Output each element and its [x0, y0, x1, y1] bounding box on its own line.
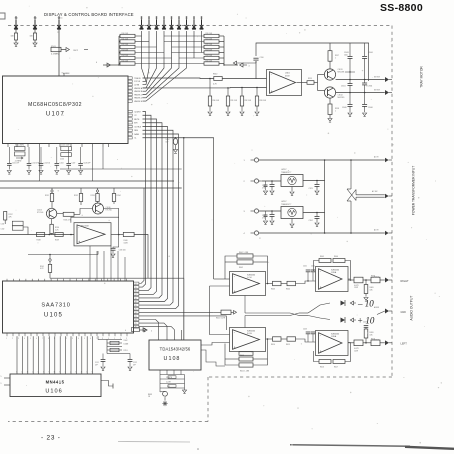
svg-text:L-CH: L-CH — [247, 277, 252, 279]
svg-text:CUTR-B: CUTR-B — [134, 126, 142, 128]
svg-text:R315: R315 — [308, 78, 312, 80]
svg-text:TRANSIST T: TRANSIST T — [281, 203, 292, 206]
wire pair to AC arrow — [356, 194, 385, 196]
wire CN1 pin 7 to U107 — [143, 31, 187, 101]
wire bus line 11 — [70, 336, 72, 374]
scan artifact faint line — [118, 441, 190, 444]
resistor R139 series — [55, 233, 63, 237]
svg-text:R151: R151 — [124, 350, 128, 352]
capacitor C310 — [253, 57, 258, 59]
U107 bottom pin 3 stub — [27, 144, 29, 148]
open arrow node DATA below U105 — [139, 329, 143, 331]
capacitor C404 — [312, 334, 314, 342]
capacitor C110 electrolytic to ground — [175, 137, 177, 140]
svg-text:HNDSK A: HNDSK A — [134, 87, 143, 90]
wire CN1 pin 1 to U107 — [142, 31, 147, 81]
resistor R407 0.47R — [354, 277, 363, 283]
resistor RA1-3 — [120, 45, 135, 48]
wire Q101 emitter down through R136 — [51, 219, 53, 225]
svg-text:U106: U106 — [45, 389, 62, 395]
wire bus line 15 — [92, 336, 94, 374]
svg-text:C310: C310 — [260, 57, 264, 59]
capacitor C311 between rails — [349, 80, 351, 84]
svg-text:1/2EA: 1/2EA — [331, 335, 337, 338]
crystal X101 network boxes — [15, 147, 26, 151]
wire input line with series resistors — [0, 234, 74, 236]
resistor RA1-4 — [120, 51, 135, 54]
connector arrow RIGHT — [380, 279, 385, 281]
svg-text:U105: U105 — [44, 313, 63, 319]
wire bus line 13 — [81, 336, 83, 374]
resistor RA1-6 — [120, 62, 135, 65]
svg-text:HNDSK E: HNDSK E — [134, 101, 143, 103]
svg-text:NEC2SD: NEC2SD — [338, 97, 346, 99]
U107 bottom pin 7 stub — [70, 144, 72, 148]
svg-text:R10 10K: R10 10K — [122, 33, 129, 35]
svg-text:2: 2 — [151, 331, 152, 333]
capacitor C401 — [307, 272, 309, 281]
capacitor C312 electrolytic — [364, 80, 366, 84]
capacitor C131 boxes left — [12, 221, 23, 225]
wire REG2 output — [303, 212, 325, 214]
svg-text:R415: R415 — [286, 344, 290, 346]
svg-text:R-CH: R-CH — [247, 333, 252, 335]
op-amp U401B left lower — [230, 328, 266, 352]
transistor Q102 — [93, 203, 104, 214]
resistor R412 second feedback below — [239, 357, 253, 361]
resistor RP1 pull-down with ground — [209, 79, 211, 97]
svg-text:HNDSK B: HNDSK B — [134, 91, 143, 93]
svg-text:DTCLK: DTCLK — [134, 81, 141, 83]
svg-text:C401: C401 — [303, 266, 307, 268]
resistor R135 between transistors — [57, 213, 63, 215]
capacitor C152 with ground — [129, 354, 131, 360]
output chain LEFT channel — [348, 342, 354, 344]
junction dots tray outputs — [349, 79, 351, 81]
wire U107 C2 to center bus down to U105 pin 3 — [139, 115, 151, 290]
wire U105 pin 13 to U108 pin c — [139, 327, 175, 340]
connector P303 power input — [254, 209, 258, 213]
svg-text:R411 1.13M: R411 1.13M — [240, 371, 250, 373]
wire U107 C7 down to U105 pin 8 — [139, 134, 179, 309]
svg-text:R12 10K: R12 10K — [122, 44, 129, 46]
resistor RP3 pull-down with ground — [241, 88, 243, 97]
wire bus line 3 — [27, 336, 29, 374]
connector arrow LEFT — [380, 342, 385, 344]
connector CN1 pin 5 — [171, 20, 173, 26]
resistor RA2-1 — [204, 34, 219, 37]
svg-text:C108 47P: C108 47P — [83, 163, 90, 165]
svg-text:AUDIO OUTPUT: AUDIO OUTPUT — [410, 296, 414, 321]
wire bus C — [0, 187, 182, 189]
feedback loop U401A with resistors — [253, 256, 268, 284]
resistor R138 series — [36, 233, 44, 237]
resistor RA2-4 — [204, 51, 219, 54]
capacitor C101 with ground — [8, 147, 10, 163]
wire bus B — [0, 180, 174, 182]
resistor RA2-6 — [204, 62, 219, 65]
svg-text:+: + — [78, 240, 80, 244]
wire audio input lower B steps — [201, 343, 230, 346]
resistor R102 with ground — [34, 30, 36, 34]
resistor network XT102 rows — [106, 340, 108, 354]
svg-text:OSC1: OSC1 — [58, 18, 63, 20]
svg-text:15: 15 — [135, 287, 137, 289]
wire U107 C6 to center bus down to U105 pin 7 — [139, 130, 173, 305]
wire R141 to horizontal rail — [49, 272, 51, 278]
dashed interface border bottom — [8, 421, 208, 423]
svg-text:+ 10: + 10 — [357, 316, 375, 326]
wire U107 C8 long to audio — [143, 138, 214, 279]
svg-text:-: - — [271, 72, 272, 76]
svg-text:R402: R402 — [239, 267, 243, 269]
capacitor C107 with ground — [68, 147, 70, 163]
scan artifact dark edge — [405, 447, 454, 449]
connector CN1 pin 1 — [141, 20, 143, 26]
resistor R141 vertical RES line — [49, 255, 51, 259]
wire Q102 collector right — [104, 209, 119, 218]
svg-text:+: + — [234, 346, 236, 350]
U108 left arrow node — [132, 328, 140, 332]
wire CN1 pin 4 to U107 — [143, 31, 165, 91]
U107 bottom pin 5 stub — [48, 144, 50, 148]
output resistor R415 — [281, 338, 287, 340]
wire bus line 4 — [32, 336, 34, 374]
svg-text:23: 23 — [135, 316, 137, 318]
resistor R310 strobe — [214, 77, 222, 81]
svg-text:POWER TRANSFORMER INPUT: POWER TRANSFORMER INPUT — [412, 166, 416, 216]
wire U105 pin 9 to CUTR — [139, 311, 214, 313]
resistor network boxes R121 — [61, 147, 72, 151]
open arrow node OSC2 — [66, 47, 69, 51]
wire bus line 10 — [65, 336, 67, 374]
svg-text:R131: R131 — [45, 195, 49, 197]
svg-text:C3011: C3011 — [341, 86, 346, 88]
svg-text:R134: R134 — [117, 195, 121, 197]
svg-text:1: 1 — [335, 110, 336, 112]
svg-text:4: 4 — [96, 62, 97, 64]
voltage regulator REG1 — [281, 175, 303, 187]
svg-text:MN4415: MN4415 — [46, 380, 65, 385]
wire CN1 pin 5 to U107 — [143, 31, 172, 95]
svg-text:R403: R403 — [271, 289, 275, 291]
svg-text:1: 1 — [335, 57, 336, 59]
output resistor R414 — [268, 338, 273, 340]
connector J3 OSC1 — [58, 20, 60, 26]
connector node 27 — [163, 391, 168, 396]
junction dots input line — [49, 234, 51, 236]
op-amp U301 tray driver — [267, 70, 302, 96]
wire crossover X — [350, 160, 352, 189]
svg-text:TDMOD: TDMOD — [134, 78, 141, 80]
capacitor C322 with ground — [271, 211, 273, 214]
voltage regulator REG2 — [281, 207, 303, 219]
svg-text:1/2EA: 1/2EA — [331, 271, 337, 274]
svg-text:R25 10K: R25 10K — [206, 60, 213, 62]
wire strobe to op-amp — [222, 78, 266, 80]
svg-text:LEFT: LEFT — [401, 342, 408, 346]
svg-text:R13 10K: R13 10K — [122, 49, 129, 51]
resistor R134 hanging — [113, 188, 115, 194]
svg-text:C402: C402 — [311, 266, 315, 268]
wire to regulator REG1 — [259, 180, 281, 182]
svg-text:+: + — [320, 350, 322, 354]
wire U105 bottom pin to U108 pin d — [130, 336, 182, 341]
svg-text:MC68HC05C8/P302: MC68HC05C8/P302 — [28, 102, 82, 108]
capacitor C132 boxes left — [12, 226, 23, 230]
wire CN1 pin 6 to U107 — [143, 31, 180, 98]
dashed interface border right — [391, 26, 393, 378]
resistor R413 third feedback below — [239, 352, 253, 356]
resistor R317 collector top — [329, 43, 331, 51]
U107 bottom pin 10 stub — [102, 144, 104, 148]
wire CN1 pin 9 stub — [201, 31, 203, 53]
wire AC rail top — [259, 159, 385, 161]
capacitor C313 top with label — [349, 43, 351, 56]
svg-text:C7034: C7034 — [368, 86, 373, 88]
svg-text:U108: U108 — [164, 356, 181, 362]
wire bus line 8 — [54, 336, 56, 374]
wire U108 ground leg — [164, 390, 166, 393]
svg-text:18: 18 — [135, 298, 137, 300]
op-amp U105 box (SAA7310 decoder) — [3, 281, 134, 333]
wire bus line 9 — [59, 336, 61, 374]
capacitor C103 with ground — [40, 147, 42, 163]
resistor R409 to ground — [365, 280, 367, 285]
transistor Q301 — [324, 69, 335, 80]
capacitor C314 top right — [364, 43, 366, 56]
U107 right pin name boxes group2 — [128, 110, 132, 112]
resistor RA1-2 — [120, 40, 135, 43]
svg-text:-: - — [320, 333, 321, 337]
wire bus line 6 — [43, 336, 45, 374]
resistor R131 hanging — [51, 188, 53, 190]
wire CN1 pin 3 to U107 — [143, 31, 157, 88]
svg-text:MUTE: MUTE — [134, 119, 140, 121]
wire bus line 7 — [48, 336, 50, 374]
connector CN1 pin 3 — [156, 20, 158, 26]
svg-text:-: - — [320, 269, 321, 273]
connector CN1 pin 9 — [201, 20, 203, 26]
ground REG2 — [291, 219, 293, 224]
resistor R103 4MHZ — [51, 47, 61, 51]
svg-text:4.19MHZ: 4.19MHZ — [51, 54, 60, 56]
open arrow mute lower — [350, 318, 353, 322]
wire to right opamp stage — [296, 281, 316, 284]
wire output to bus — [134, 235, 148, 279]
resistor R402 second feedback — [237, 260, 253, 264]
resistor RA2-5 — [204, 56, 219, 59]
svg-text:8.46M: 8.46M — [124, 344, 129, 346]
junction and resistor R408 — [363, 279, 371, 281]
resistor R132 hanging — [80, 188, 82, 194]
wire U105 pin 12 to U108 pin b — [139, 323, 167, 340]
wire tray feedback loop top — [255, 61, 257, 79]
wire op-amp output to base resistor — [297, 82, 308, 84]
wire lower diagonal steps — [201, 350, 225, 366]
svg-text:C3043: C3043 — [344, 52, 349, 54]
op-amp U402B right lower — [316, 331, 349, 356]
svg-text:47P: 47P — [133, 364, 136, 366]
mute transistor marks upper — [308, 303, 330, 313]
wire U107 C5 to center bus down to U105 pin 6 — [139, 127, 168, 302]
svg-text:C105 100P: C105 100P — [61, 145, 70, 147]
svg-text:21: 21 — [135, 309, 137, 311]
wire AC rail bottom — [259, 232, 385, 234]
capacitor C315 bottom with ground — [349, 93, 351, 105]
resistor R133 hanging — [97, 188, 99, 190]
svg-text:LDTM: LDTM — [134, 85, 139, 87]
svg-text:R133: R133 — [91, 195, 95, 197]
svg-text:U107: U107 — [46, 112, 65, 118]
svg-text:RIGHT: RIGHT — [401, 279, 409, 283]
wire left boxes to input line — [23, 227, 28, 235]
resistor R418 0.47R — [354, 340, 363, 346]
op-amp U107 box (MCU MC68HC05C8/P302) — [3, 76, 129, 144]
svg-text:1/2W: 1/2W — [354, 350, 358, 352]
connector J2 P32 — [34, 20, 36, 26]
svg-text:TRAY MOTOR: TRAY MOTOR — [420, 66, 424, 88]
resistor RA1-1 — [120, 34, 135, 37]
svg-text:OSC2: OSC2 — [73, 50, 78, 52]
svg-text:14: 14 — [135, 284, 137, 286]
svg-text:25: 25 — [135, 323, 137, 325]
svg-text:HNDSK C: HNDSK C — [134, 94, 143, 96]
U107 bottom pin 6 stub — [59, 144, 61, 148]
wire tray motor output A — [336, 79, 385, 81]
wire feedback loop U102 — [71, 217, 119, 234]
wire bus line 1 — [16, 336, 18, 374]
U107 bottom pin 4 stub — [39, 144, 41, 148]
resistor R315 base — [307, 81, 314, 85]
capacitor C102 with ground — [28, 147, 30, 163]
svg-text:-: - — [234, 330, 235, 334]
scan artifact dot — [197, 448, 199, 450]
U108 bottom pin stubs — [159, 370, 161, 375]
svg-text:R23 10K: R23 10K — [206, 49, 213, 51]
connector CN1 pin 6 — [178, 20, 180, 26]
svg-text:GND: GND — [401, 311, 407, 314]
svg-text:C3045: C3045 — [342, 107, 347, 109]
svg-text:19: 19 — [135, 302, 137, 304]
capacitor C324 with ground — [316, 213, 318, 217]
open arrow node KEY2 — [240, 63, 243, 67]
ground REG1 — [291, 187, 293, 192]
svg-text:4.19MHZ: 4.19MHZ — [15, 161, 22, 163]
svg-text:R21 10K: R21 10K — [206, 38, 213, 40]
U107 bottom pin 11 stub — [107, 144, 109, 148]
U107 pin 39 tick — [63, 73, 65, 76]
resistor R420 up with cap — [365, 338, 367, 343]
op-amp U108 box (TDA1543 DAC) — [149, 340, 201, 370]
capacitor C104 with ground — [56, 147, 58, 163]
svg-text:R15 10K: R15 10K — [122, 60, 129, 62]
U105 top long stubs to servo section — [89, 246, 91, 281]
svg-text:MOTOR: MOTOR — [374, 77, 381, 79]
wire U105 pin 11 to U108 pin a — [139, 320, 159, 341]
open arrow CUTR — [231, 311, 234, 313]
resistor R136 — [50, 224, 53, 233]
dashed interface border step vertical — [207, 377, 209, 422]
op-amp U106 box (MN4415 RAM) — [10, 374, 101, 397]
resistor R137 left edge — [4, 212, 7, 221]
resistor RA2-2 — [204, 40, 219, 43]
svg-text:TDA1543/42/56: TDA1543/42/56 — [160, 347, 191, 352]
resistor RA1-5 — [120, 56, 135, 59]
U105 top pin stubs — [6, 279, 8, 281]
svg-text:- 23 -: - 23 - — [41, 435, 61, 442]
svg-text:C102 47P: C102 47P — [32, 163, 39, 165]
connector CN1 pin 8 — [193, 20, 195, 26]
svg-text:17: 17 — [135, 294, 137, 296]
svg-text:R405: R405 — [320, 256, 324, 258]
resistor RA2-3 — [204, 45, 219, 48]
wire CN1 pin 2 to U107 — [143, 31, 150, 85]
svg-text:DATA: DATA — [134, 133, 139, 136]
svg-text:R421 CUTR: R421 CUTR — [216, 317, 226, 319]
wire bus line 5 — [38, 336, 40, 374]
svg-text:P31: P31 — [15, 18, 18, 20]
svg-text:R414: R414 — [271, 344, 275, 346]
svg-text:R30 10K: R30 10K — [212, 100, 219, 102]
U105 right pin boxes — [134, 282, 139, 285]
op-amp U401A left upper — [230, 272, 266, 296]
svg-text:TRANSIST T: TRANSIST T — [281, 171, 292, 174]
wire audio input lower A — [210, 320, 230, 335]
svg-text:C151: C151 — [95, 362, 99, 364]
U105 bottom pin stubs with numbers — [6, 333, 8, 336]
wire cluster to U105 pins — [97, 336, 99, 339]
svg-text:R31 10K: R31 10K — [230, 100, 237, 102]
svg-text:X102: X102 — [124, 340, 128, 342]
wire to regulator REG2 — [259, 210, 281, 212]
transistor Q302 — [324, 87, 335, 98]
capacitor C133 below op-amp with ground — [113, 235, 119, 249]
feedback resistors U402B below — [345, 343, 351, 362]
svg-text:C3044: C3044 — [368, 52, 373, 54]
svg-text:C2: C2 — [134, 115, 136, 117]
junction and resistor R419 — [363, 342, 371, 344]
svg-text:R401 1.13M: R401 1.13M — [239, 252, 249, 254]
ground U108 ladder right leg — [182, 390, 186, 393]
wire mute pair with braid — [245, 312, 290, 314]
svg-text:NEC2SB: NEC2SB — [338, 71, 346, 73]
svg-text:SS-8800: SS-8800 — [380, 2, 423, 14]
star ground symbol — [164, 396, 166, 400]
svg-text:24: 24 — [135, 320, 137, 322]
op-amp U102 servo — [74, 223, 111, 246]
svg-text:P32: P32 — [34, 18, 37, 20]
svg-text:C103 1U: C103 1U — [44, 163, 51, 165]
wire tray motor output B — [336, 92, 385, 94]
svg-text:R14 10K: R14 10K — [122, 55, 129, 57]
feedback loop U401B below — [253, 339, 268, 365]
svg-text:9: 9 — [1, 383, 2, 385]
svg-text:DISPLAY & CONTROL BOARD INTERF: DISPLAY & CONTROL BOARD INTERFACE — [44, 12, 134, 17]
capacitor C151 with ground — [102, 354, 104, 360]
wire to right lower opamp — [296, 339, 316, 342]
svg-text:20: 20 — [135, 305, 137, 307]
wire bus line 12 — [75, 336, 77, 374]
svg-text:C131: C131 — [1, 224, 5, 226]
connector P301 power input — [254, 158, 258, 162]
svg-text:C152: C152 — [133, 362, 137, 364]
U107 bottom pin 8 stub — [81, 144, 83, 148]
svg-text:HNDSK D: HNDSK D — [134, 98, 143, 100]
svg-text:R132: R132 — [74, 195, 78, 197]
svg-text:4: 4 — [249, 66, 250, 68]
resistor R318 collector bottom — [329, 98, 331, 104]
